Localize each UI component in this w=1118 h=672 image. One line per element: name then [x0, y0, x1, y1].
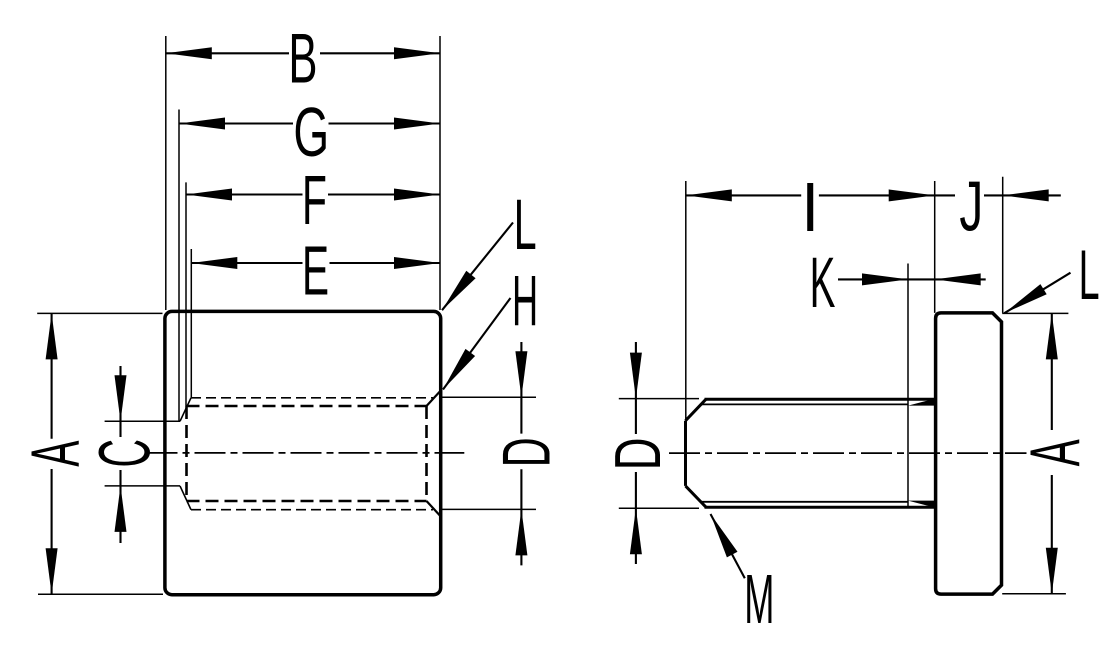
leader arrow L-left	[442, 271, 476, 311]
arrow D-right bottom (points up)	[630, 508, 642, 554]
left view bore left end (hidden)	[185, 406, 188, 501]
pilot hole bottom line / C extension	[105, 485, 180, 487]
svg-text:M: M	[744, 560, 774, 638]
screw head outline	[936, 313, 1002, 594]
A bottom extension line	[38, 593, 163, 595]
svg-text:D: D	[488, 437, 564, 467]
arrow G left	[179, 118, 225, 130]
left view bore minor dia top (hidden)	[187, 405, 427, 408]
screw thread major bottom	[705, 506, 936, 509]
dimension line D-left (lower part)	[520, 469, 522, 565]
arrow D-left bottom (points up)	[515, 509, 527, 555]
dimension line G (right part)	[329, 122, 441, 124]
screw tip chamfer bottom	[686, 486, 707, 507]
arrow B right	[394, 47, 440, 59]
svg-text:F: F	[302, 162, 327, 240]
arrow F right	[394, 189, 440, 201]
screw thread minor top	[701, 403, 909, 405]
thread runout wedge top	[908, 399, 935, 406]
thread runout line / K left extension	[907, 264, 909, 508]
leader arrow M	[711, 514, 738, 557]
leader line L-left	[442, 223, 513, 311]
dimension line I (left part)	[686, 194, 801, 196]
dimension line G (left part)	[179, 122, 293, 124]
D-right bottom extension line	[619, 507, 699, 509]
arrow K right (outside, points left)	[935, 273, 981, 285]
dimension line A (upper part)	[51, 313, 53, 438]
dimension line A-right (upper part)	[1051, 313, 1053, 430]
B/G/F/E right extension line	[439, 36, 441, 310]
left view: body outline (rounded square)	[165, 311, 441, 594]
svg-text:L: L	[514, 186, 537, 265]
D-left bottom extension line	[441, 508, 536, 510]
arrow B left	[166, 47, 212, 59]
svg-text:A: A	[1017, 439, 1095, 467]
I/J middle extension line	[934, 181, 936, 313]
J right extension line	[1002, 177, 1004, 313]
screw end face	[684, 421, 687, 486]
F left extension line	[185, 182, 187, 406]
left view centerline	[147, 452, 465, 454]
dimension line K	[838, 278, 986, 280]
svg-text:H: H	[512, 261, 538, 342]
arrow A-right top	[1046, 313, 1058, 359]
A-right bottom extension line	[1002, 593, 1066, 595]
dimension line A (lower part)	[51, 469, 53, 594]
left view bore minor dia bottom (hidden)	[187, 500, 427, 503]
I left extension line	[685, 181, 687, 421]
A-right top extension line	[1002, 312, 1068, 314]
dimension line E (right part)	[330, 262, 441, 264]
dimension line C (lower part)	[119, 470, 121, 543]
leader arrow L-right	[1004, 284, 1046, 313]
arrow E right	[394, 257, 440, 269]
screw thread minor bottom	[701, 501, 909, 503]
leader line L-right	[1004, 273, 1070, 314]
svg-text:C: C	[85, 439, 166, 468]
arrow F left	[186, 189, 232, 201]
arrow G right	[394, 118, 440, 130]
B left extension line	[165, 36, 167, 310]
arrow E left	[191, 257, 237, 269]
entry chamfer cone top	[180, 398, 191, 422]
dimension line B (left part)	[166, 52, 289, 54]
pilot hole top line / C extension	[105, 420, 180, 422]
thread runout wedge bottom	[908, 501, 935, 508]
D-left top extension line	[441, 396, 536, 398]
arrow A-right bottom	[1046, 548, 1058, 594]
svg-text:E: E	[302, 232, 329, 310]
dimension line D-right (upper part)	[635, 342, 637, 434]
dimension line D-left (upper part)	[520, 342, 522, 434]
entry chamfer cone bottom	[180, 486, 191, 510]
svg-text:A: A	[17, 440, 94, 467]
dimension line F (right part)	[328, 193, 440, 195]
leader arrow H	[443, 349, 475, 390]
svg-text:D: D	[601, 437, 674, 470]
dimension line A-right (lower part)	[1051, 475, 1053, 594]
svg-text:J: J	[959, 167, 983, 245]
screw thread major top	[705, 398, 936, 401]
arrow J right (outside, points left)	[1003, 189, 1049, 201]
dimension line F (left part)	[186, 193, 303, 195]
arrow C bottom (points up)	[115, 486, 127, 532]
screw tip chamfer top	[686, 399, 707, 421]
left view thread major dia top (hidden)	[191, 397, 433, 399]
dimension line C (upper part)	[119, 366, 121, 437]
A top extension line	[37, 312, 162, 314]
left view thread major dia bottom (hidden)	[191, 509, 433, 511]
E left extension line	[190, 249, 192, 398]
svg-text:I: I	[801, 169, 819, 247]
arrow I left	[686, 189, 732, 201]
left view bore chamfer diagonal top right	[427, 390, 442, 406]
right view centerline	[669, 452, 1027, 454]
arrow A top	[46, 313, 58, 359]
leader line M	[711, 514, 745, 578]
dimension line D-right (lower part)	[635, 472, 637, 564]
arrow A bottom	[46, 548, 58, 594]
D-right top extension line	[619, 398, 699, 400]
svg-text:L: L	[1079, 235, 1100, 314]
arrow I right	[889, 189, 935, 201]
arrow D-left top (points down)	[515, 351, 527, 397]
left view bore chamfer diagonal bottom right	[427, 501, 442, 517]
left view bore right end (hidden)	[425, 406, 428, 501]
arrow D-right top (points down)	[630, 353, 642, 399]
arrow C top (points down)	[115, 375, 127, 421]
dimension line I/J (middle part)	[819, 194, 955, 196]
G left extension line	[178, 110, 180, 422]
dimension line B (right part)	[320, 52, 440, 54]
leader line H	[443, 298, 511, 390]
dimension line E (left part)	[191, 262, 302, 264]
svg-text:B: B	[288, 20, 317, 98]
svg-text:G: G	[293, 92, 329, 171]
dimension line J (right part)	[984, 194, 1061, 196]
arrow K left (outside, points right)	[862, 273, 908, 285]
svg-text:K: K	[810, 244, 836, 323]
